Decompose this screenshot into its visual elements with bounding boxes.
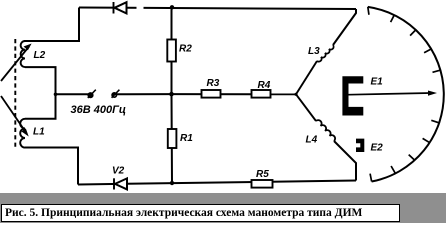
dial ticks <box>368 7 441 182</box>
meter element E2 <box>356 139 364 152</box>
wire: L3 to top right corner <box>333 9 356 45</box>
resistor R1 <box>168 129 177 148</box>
scan gap in top rail <box>137 4 144 12</box>
wire: L2 bottom to middle junction and down to L1 top <box>25 67 56 119</box>
meter element E1 <box>342 76 363 115</box>
svg-text:L2: L2 <box>34 50 46 61</box>
svg-text:36В 400Гц: 36В 400Гц <box>71 104 126 116</box>
resistor R3 <box>202 90 221 98</box>
svg-text:R4: R4 <box>258 80 271 91</box>
caption box <box>1 204 400 222</box>
svg-text:V2: V2 <box>112 166 125 177</box>
wire: left vertical from top rail to L2 top <box>24 8 79 42</box>
core arrow to L1 <box>1 96 29 137</box>
core dashed line <box>14 39 16 150</box>
resistor R4 <box>252 90 271 98</box>
connector pin P1 <box>88 90 96 98</box>
wire: middle feed from junction A <box>56 93 90 95</box>
resistor R5 <box>252 180 273 188</box>
svg-text:R1: R1 <box>180 133 193 144</box>
wire: node B up to L3 <box>296 61 317 94</box>
junction: center column middle <box>169 92 174 97</box>
diode V2 <box>114 178 127 189</box>
svg-text:R2: R2 <box>179 44 192 55</box>
svg-text:E1: E1 <box>371 77 384 88</box>
svg-text:L4: L4 <box>306 135 318 146</box>
node B <box>294 93 297 96</box>
inductor L4 <box>316 120 335 141</box>
connector pin P2 <box>112 90 120 98</box>
wire: L1 bottom down to bottom rail <box>25 148 78 185</box>
wire: node B down to L4 <box>296 94 316 121</box>
svg-text:R5: R5 <box>256 169 269 180</box>
svg-text:E2: E2 <box>371 143 384 154</box>
inductor L2 <box>21 41 25 67</box>
junction A (left column / middle wire) <box>54 93 58 97</box>
junction: center column bottom <box>170 181 174 185</box>
resistor R2 <box>167 40 176 62</box>
svg-text:L3: L3 <box>308 46 320 57</box>
inductor L3 <box>317 45 334 62</box>
svg-text:R3: R3 <box>207 78 220 89</box>
wire: center column (top rail to bottom rail) <box>171 8 174 183</box>
meter needle <box>349 91 438 96</box>
inductor L1 <box>20 119 25 148</box>
wire: L4 to bottom right corner <box>334 141 356 181</box>
wire: top rail <box>79 8 356 10</box>
caption band <box>0 193 446 223</box>
wire: middle wire to node B <box>172 93 297 95</box>
wire: bottom rail <box>78 181 356 185</box>
core arrow to L2 <box>1 44 32 82</box>
svg-text:L1: L1 <box>33 127 45 138</box>
meter dial arc <box>368 7 444 182</box>
junction: center column top <box>170 5 174 9</box>
wire: middle wire P2 to center column <box>113 93 172 95</box>
diode V1 <box>114 2 127 14</box>
